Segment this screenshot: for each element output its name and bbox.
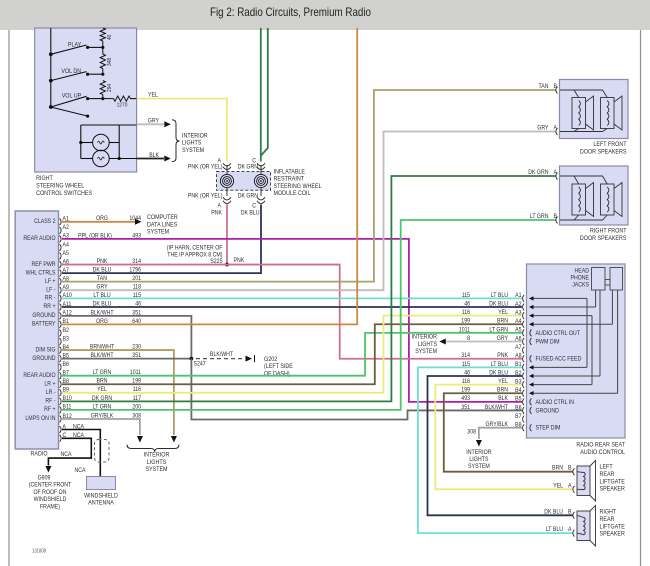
svg-text:A5: A5: [63, 250, 70, 257]
wire BLK/WHT 351 S247 to ctrl B6 ground: [191, 359, 522, 420]
svg-text:SPEAKER: SPEAKER: [600, 531, 626, 538]
svg-text:OF ROOF ON: OF ROOF ON: [34, 489, 67, 496]
contact dot PLAY: [86, 46, 89, 49]
voice coil: [584, 517, 586, 535]
ctrl pin B2 bracket: [523, 373, 525, 380]
speaker unit at x=572: [572, 98, 586, 129]
svg-text:B: B: [568, 508, 572, 515]
svg-text:COMPUTER: COMPUTER: [147, 214, 178, 221]
junction resistor rail PLAY: [101, 46, 104, 49]
svg-text:308: 308: [467, 429, 476, 436]
pin B1 bracket: [60, 321, 62, 328]
ctrl pin B8 bracket: [523, 424, 525, 431]
jack link bar: [605, 280, 610, 286]
wire coil A top lead: [226, 165, 228, 174]
svg-text:PWM DIM: PWM DIM: [536, 339, 560, 346]
coil A spiral: [220, 174, 233, 187]
svg-text:493: 493: [461, 395, 470, 402]
svg-text:DK BLU: DK BLU: [544, 508, 563, 515]
contact dot VOL UP: [86, 97, 89, 100]
radio connector box: [15, 211, 58, 449]
svg-text:LT GRN: LT GRN: [530, 213, 549, 220]
arrow GRY/BLK step dim to interior lights: [476, 440, 482, 447]
svg-text:(CENTER FRONT: (CENTER FRONT: [29, 482, 72, 489]
resistor 40 (top, cut): [100, 28, 105, 41]
wire contact-PLAY to resistor rail: [88, 46, 103, 48]
speaker feed wires bottom: [560, 129, 607, 132]
svg-text:Fig 2: Radio Circuits, Premium: Fig 2: Radio Circuits, Premium Radio: [210, 5, 371, 19]
pin A8 bracket: [60, 278, 62, 285]
wire DK BLU 1796 coil C to radio A7: [62, 205, 261, 274]
svg-text:VOL UP: VOL UP: [62, 93, 82, 100]
wire lamp top to box edge: [81, 124, 137, 126]
arrow GRY to interior lights (pwm dim): [439, 339, 446, 345]
svg-text:INTERIOR: INTERIOR: [144, 452, 170, 459]
internal bracket AUDIO CTRL OUT: [530, 329, 532, 336]
pin B7 bracket: [60, 372, 62, 379]
op coil: inflatable restraint steering wheel module coil U1: [217, 172, 271, 191]
pin C bracket (antenna): [60, 435, 62, 442]
junction lamp right rail: [118, 157, 121, 160]
speaker unit at x=600.5: [601, 98, 615, 129]
svg-text:DK BLU: DK BLU: [93, 267, 112, 274]
switch blade VOL DN: [51, 72, 87, 81]
speaker unit at x=600.5: [601, 184, 615, 215]
svg-text:A7: A7: [515, 344, 522, 351]
svg-text:1270: 1270: [117, 103, 128, 109]
connector coil pin C (bottom): [257, 197, 265, 203]
wire DK BLU ctrl B2 to right liftgate B: [428, 376, 574, 515]
ctrl pin B3 bracket: [523, 381, 525, 388]
wire coil C top lead: [260, 165, 262, 174]
svg-text:B5: B5: [515, 396, 522, 403]
svg-text:PNK: PNK: [234, 257, 245, 264]
svg-text:LR -: LR -: [46, 389, 56, 396]
svg-text:PNK: PNK: [497, 352, 508, 359]
ctrl pin A7 bracket: [523, 347, 525, 354]
svg-text:GROUND: GROUND: [32, 312, 56, 319]
svg-text:A5: A5: [515, 327, 522, 334]
svg-text:RR +: RR +: [44, 303, 56, 310]
svg-text:AUDIO CONTROL: AUDIO CONTROL: [580, 449, 625, 456]
svg-text:DK GRN: DK GRN: [238, 193, 258, 200]
wire NCA shield to G909: [48, 438, 91, 465]
svg-text:DOOR SPEAKERS: DOOR SPEAKERS: [580, 235, 627, 242]
headphone jack 2: [610, 268, 623, 291]
splice S225: [225, 263, 229, 267]
internal wire B2: [533, 375, 600, 377]
pin B2 bracket: [60, 330, 62, 337]
svg-text:BATTERY: BATTERY: [32, 321, 56, 328]
svg-text:1796: 1796: [129, 267, 141, 274]
switch blade VOL UP: [51, 96, 87, 107]
pin B10 bracket: [60, 398, 62, 405]
wire BLK/WHT 351 radio A12 to S247: [62, 316, 191, 359]
wire lamp 1 to right rail: [109, 142, 119, 144]
wire contact-VOL UP to resistor rail: [88, 98, 103, 100]
voice coil: [584, 472, 586, 490]
internal bracket GROUND: [530, 407, 532, 414]
ground arrow G909: [45, 466, 51, 473]
svg-text:RR -: RR -: [45, 295, 56, 302]
svg-text:A1: A1: [515, 292, 522, 299]
svg-text:PNK (OR YEL): PNK (OR YEL): [188, 164, 223, 171]
lamp 1: [93, 134, 110, 151]
internal wire A3: [533, 315, 592, 317]
wire ORG 1044 class 2 data: [62, 221, 135, 223]
internal wire A2: [533, 306, 596, 308]
ctrl pin B6 bracket: [523, 407, 525, 414]
internal wire B3: [533, 384, 592, 386]
svg-text:RADIO: RADIO: [31, 451, 48, 458]
wire GRY/BLK 308 step dim: [479, 428, 522, 439]
svg-text:REAR: REAR: [600, 516, 615, 523]
svg-text:PNK (OR YEL): PNK (OR YEL): [188, 193, 223, 200]
svg-text:LF +: LF +: [45, 278, 56, 285]
svg-text:B3: B3: [63, 335, 70, 342]
internal vertical A1-B1: [586, 298, 588, 367]
junction resistor rail VOL UP: [101, 97, 104, 100]
svg-text:STEERING WHEEL: STEERING WHEEL: [36, 182, 84, 189]
wire switch common rail: [50, 28, 52, 107]
wire LT BLU 115 radio A10 to ctrl A1: [62, 297, 522, 299]
svg-text:INTERIOR: INTERIOR: [182, 132, 208, 139]
internal arrow B2: [529, 374, 534, 378]
svg-text:A4: A4: [63, 241, 70, 248]
resistor 348: [100, 54, 105, 69]
svg-text:LMPS ON IN: LMPS ON IN: [25, 415, 55, 422]
svg-text:(IP HARN, CENTER OF: (IP HARN, CENTER OF: [167, 244, 223, 251]
ctrl pin A2 bracket: [523, 304, 525, 311]
svg-text:LIGHTS: LIGHTS: [147, 459, 166, 466]
wire BRN/WHT 230 radio B4 dim sig: [62, 350, 174, 435]
wire BLK/WHT dashed to G202: [196, 358, 245, 360]
internal arrow A4: [529, 322, 534, 326]
page left border: [8, 30, 10, 566]
svg-text:DK GRN: DK GRN: [238, 164, 258, 171]
voice coil: [579, 187, 581, 212]
svg-text:RIGHT: RIGHT: [36, 175, 53, 182]
svg-text:YEL: YEL: [553, 482, 563, 489]
svg-text:B: B: [568, 465, 572, 472]
ctrl pin B7 bracket: [523, 416, 525, 423]
pin A9 bracket: [60, 287, 62, 294]
pin A6 bracket: [60, 261, 62, 268]
svg-text:SYSTEM: SYSTEM: [145, 466, 167, 473]
voice coil: [579, 101, 581, 126]
internal arrow B1: [529, 365, 534, 369]
lamp 2: [93, 150, 110, 167]
wire VOL UP node to resistor 1270: [103, 98, 114, 100]
junction resistor rail VOL DN: [101, 73, 104, 76]
svg-text:WHL CTRLS: WHL CTRLS: [26, 269, 56, 276]
ctrl pin A1 bracket: [523, 295, 525, 302]
windshield antenna box: [87, 477, 116, 490]
wire NCA antenna lead: [62, 430, 100, 477]
wire LT GRN 200 radio B11 to RF speaker B: [62, 220, 556, 410]
svg-text:HEAD: HEAD: [575, 267, 590, 274]
wire DK GRN from top to coil pin C: [260, 28, 262, 162]
wire LT GRN 1011 radio B7 to ctrl A5: [62, 333, 522, 376]
svg-text:314: 314: [461, 352, 470, 359]
svg-text:REAR AUDIO: REAR AUDIO: [23, 235, 55, 242]
wire to lamp 1: [81, 142, 93, 144]
internal arrow B3: [529, 382, 534, 386]
arrow BLK to interior lights: [164, 156, 171, 162]
junction lamp rail: [79, 141, 82, 144]
connector coil pin A (top): [223, 163, 231, 169]
pin A bracket (antenna): [60, 426, 62, 433]
svg-text:JACKS: JACKS: [572, 282, 589, 289]
switch blade PLAY: [51, 45, 87, 54]
voice coil: [607, 187, 609, 212]
pin A10 bracket: [60, 295, 62, 302]
splice S247: [190, 357, 194, 361]
pin B6 bracket: [60, 364, 62, 371]
svg-text:WINDSHIELD: WINDSHIELD: [34, 496, 67, 503]
LEFT FRONT pin B: [556, 87, 558, 94]
svg-text:LR +: LR +: [44, 380, 55, 387]
ctrl pin A6 bracket: [523, 338, 525, 345]
svg-text:FRAME): FRAME): [40, 503, 60, 510]
pin A5 bracket: [60, 253, 62, 260]
internal stub jack1 tip: [595, 290, 597, 307]
svg-text:LEFT FRONT: LEFT FRONT: [593, 141, 626, 148]
page right border: [640, 30, 642, 566]
wire GRY lamp feed: [137, 123, 164, 125]
svg-text:GRY: GRY: [148, 118, 159, 125]
junction rail/VOL UP pivot: [49, 105, 53, 109]
brace interior lights system (bottom): [127, 445, 179, 452]
svg-text:GROUND: GROUND: [536, 407, 560, 414]
wire BLK/WHT 351 radio B5 to S247: [62, 358, 191, 360]
svg-text:WINDSHIELD: WINDSHIELD: [84, 492, 118, 499]
svg-text:LF -: LF -: [46, 286, 55, 293]
wire YEL 1270 to coil pin A: [137, 99, 227, 162]
svg-text:RF +: RF +: [44, 406, 56, 413]
arrow BRN/WHT to interior lights: [171, 436, 177, 443]
wire lamp 2 out: [109, 158, 136, 160]
svg-text:116: 116: [462, 309, 471, 316]
svg-text:GRY: GRY: [537, 125, 548, 132]
resistor 1270: [114, 96, 131, 101]
pin A bracket: [573, 530, 575, 537]
internal stub jack2 tip: [611, 290, 613, 324]
svg-text:SPEAKER: SPEAKER: [600, 486, 626, 493]
svg-text:YEL: YEL: [148, 92, 158, 99]
wire PNK 314 radio A6 to S225: [62, 264, 227, 266]
headphone jack 1: [592, 268, 606, 291]
svg-text:SYSTEM: SYSTEM: [415, 348, 437, 355]
svg-text:REAR AUDIO: REAR AUDIO: [23, 372, 55, 379]
svg-text:PNK: PNK: [211, 210, 222, 217]
wire coil A bottom lead: [226, 188, 228, 196]
internal bracket FUSED ACC FEED: [530, 355, 532, 362]
pin A3 bracket: [60, 236, 62, 243]
svg-text:RIGHT: RIGHT: [600, 509, 617, 516]
speaker unit at x=572: [572, 184, 586, 215]
svg-text:AUDIO CTRL OUT: AUDIO CTRL OUT: [536, 330, 581, 337]
svg-text:LEFT: LEFT: [600, 464, 613, 471]
pin B bracket: [573, 512, 575, 519]
svg-text:DK BLU: DK BLU: [489, 300, 508, 307]
wire ORG 640 battery feed: [62, 28, 357, 324]
arrow GRY to interior lights: [164, 121, 171, 127]
svg-text:RIGHT FRONT: RIGHT FRONT: [590, 228, 627, 235]
internal arrow A1: [529, 296, 534, 300]
ctrl pin B4 bracket: [523, 390, 525, 397]
svg-text:LIGHTS: LIGHTS: [418, 341, 437, 348]
pin A2 bracket: [60, 227, 62, 234]
ctrl pin A4 bracket: [523, 321, 525, 328]
junction rail/VOL DN pivot: [49, 79, 53, 83]
svg-text:CONTROL SWITCHES: CONTROL SWITCHES: [36, 190, 92, 197]
pin B bracket: [573, 468, 575, 475]
svg-text:1011: 1011: [459, 326, 471, 333]
svg-text:SYSTEM: SYSTEM: [182, 147, 204, 154]
svg-text:NCA: NCA: [75, 467, 87, 474]
svg-text:PLAY: PLAY: [68, 41, 82, 48]
pin B8 bracket: [60, 381, 62, 388]
svg-text:BLK: BLK: [498, 395, 509, 402]
internal wire B4: [533, 392, 618, 394]
svg-text:BLK: BLK: [149, 152, 160, 159]
svg-text:ANTENNA: ANTENNA: [88, 500, 114, 507]
contact dot lower switch: [86, 115, 89, 118]
svg-text:DIM SIG: DIM SIG: [36, 346, 56, 353]
arrow GRY/BLK to interior lights: [137, 436, 143, 443]
wire BRN 199 radio B8 to ctrl A4: [62, 324, 522, 384]
LEFT REAR LIFTGATE SPEAKER: [577, 466, 590, 496]
wire PNK 314 S225 to ctrl A8: [227, 265, 522, 359]
svg-text:A7: A7: [63, 267, 70, 274]
internal bracket PWM DIM: [530, 338, 532, 345]
G202 tick: [254, 355, 256, 362]
svg-text:DOOR SPEAKERS: DOOR SPEAKERS: [580, 148, 627, 155]
svg-text:LIGHTS: LIGHTS: [469, 456, 488, 463]
svg-text:BLK/WHT: BLK/WHT: [210, 351, 233, 358]
wire PNK coil A to S225: [226, 205, 228, 265]
resistor 294: [100, 81, 105, 95]
ctrl pin A8 bracket: [523, 355, 525, 362]
svg-text:BRN: BRN: [552, 465, 563, 472]
pin A11 bracket: [60, 304, 62, 311]
RIGHT FRONT pin A: [556, 173, 558, 180]
LEFT FRONT pin A: [556, 128, 558, 135]
internal wire B1: [533, 366, 587, 368]
svg-text:LIFTGATE: LIFTGATE: [600, 478, 625, 485]
pin A4 bracket: [60, 244, 62, 251]
radio rear seat audio control box: [527, 264, 626, 438]
pin B12 bracket: [60, 416, 62, 423]
svg-text:STEP DIM: STEP DIM: [536, 425, 561, 432]
svg-text:199: 199: [461, 318, 470, 325]
svg-text:C: C: [252, 203, 256, 210]
svg-text:G202: G202: [264, 356, 278, 363]
svg-text:PHONE: PHONE: [571, 275, 590, 282]
wire BRN ctrl B4 to left liftgate B: [444, 393, 573, 471]
svg-text:LIFTGATE: LIFTGATE: [600, 523, 625, 530]
wire GRY/BLK 308 radio B12 lamps-on: [62, 419, 140, 435]
arrow to computer data lines system: [135, 219, 142, 225]
wire DK BLU 46 radio A11 to ctrl A2: [62, 306, 522, 308]
svg-text:A3: A3: [515, 309, 522, 316]
wire to lamp 2: [81, 158, 93, 160]
svg-text:SYSTEM: SYSTEM: [468, 463, 490, 470]
wire lamp left rail: [80, 125, 82, 159]
pin B3 bracket: [60, 338, 62, 345]
pin A7 bracket: [60, 270, 62, 277]
wire coil C bottom lead: [260, 188, 262, 196]
svg-text:TAN: TAN: [539, 83, 549, 90]
coax shield dashed box: [95, 440, 110, 463]
wire lamp right rail: [118, 125, 120, 159]
pin B11 bracket: [60, 407, 62, 414]
connector coil pin A (bottom): [223, 197, 231, 203]
svg-text:B: B: [554, 213, 558, 220]
svg-text:INFLATABLE: INFLATABLE: [274, 169, 306, 176]
switch blade lower: [51, 107, 88, 116]
svg-text:REAR: REAR: [600, 471, 615, 478]
wire GRY 8 pwm dim: [446, 341, 522, 343]
svg-text:BLK/WHT: BLK/WHT: [485, 404, 508, 411]
svg-text:115: 115: [462, 292, 471, 299]
contact dot VOL DN: [86, 73, 89, 76]
internal stub jack2 ring: [617, 290, 619, 393]
coil C spiral: [254, 174, 267, 187]
svg-text:BRN: BRN: [497, 318, 508, 325]
svg-text:YEL: YEL: [498, 309, 508, 316]
svg-text:LT BLU: LT BLU: [491, 292, 508, 299]
pin B9 bracket: [60, 389, 62, 396]
svg-text:LT GRN: LT GRN: [489, 326, 508, 333]
svg-text:AUDIO CTRL IN: AUDIO CTRL IN: [536, 399, 575, 406]
svg-text:LIGHTS: LIGHTS: [182, 140, 201, 147]
pin A1 bracket: [60, 218, 62, 225]
brace interior lights system (top): [172, 120, 180, 162]
svg-text:SYSTEM: SYSTEM: [147, 229, 169, 236]
ctrl pin A5 bracket: [523, 329, 525, 336]
svg-text:S247: S247: [194, 360, 207, 367]
ctrl pin B5 bracket: [523, 398, 525, 405]
svg-text:A2: A2: [63, 224, 70, 231]
internal wire A4: [533, 323, 612, 325]
svg-text:A2: A2: [515, 301, 522, 308]
svg-text:DATA LINES: DATA LINES: [147, 221, 177, 228]
internal arrow A2: [529, 305, 534, 309]
internal arrow A3: [529, 313, 534, 317]
wire resistor 1270 to box edge: [131, 98, 137, 100]
svg-text:REF PWR: REF PWR: [32, 261, 56, 268]
LEFT FRONT DOOR SPEAKERS box: [560, 80, 629, 139]
wire DK GRN 117 radio B10 to RF speaker A: [62, 176, 556, 401]
wire PPL (OR BLK) 493 radio A3 to ctrl B5: [62, 239, 522, 402]
internal bracket AUDIO CTRL IN: [530, 398, 532, 405]
speaker feed wires bottom: [560, 215, 607, 220]
svg-text:INTERIOR: INTERIOR: [466, 449, 492, 456]
ctrl pin A3 bracket: [523, 312, 525, 319]
internal bracket STEP DIM: [530, 424, 532, 431]
svg-text:CLASS 2: CLASS 2: [34, 218, 56, 225]
svg-text:RF -: RF -: [45, 398, 55, 405]
svg-text:G909: G909: [38, 475, 51, 482]
wire YEL 116 radio B9 to ctrl A3: [62, 316, 522, 393]
ctrl pin B1 bracket: [523, 364, 525, 371]
internal vertical A3-B3: [591, 316, 593, 385]
speaker feed wires top: [560, 90, 607, 98]
wire BLK lamp return: [137, 158, 164, 160]
arrow to G202: [246, 356, 253, 362]
